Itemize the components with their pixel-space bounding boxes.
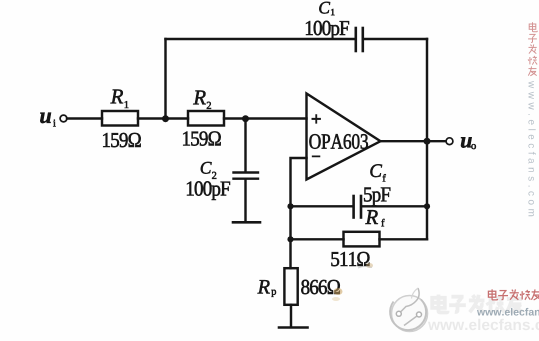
wire input to R1 <box>67 117 102 119</box>
wire Rp to ground <box>290 305 292 327</box>
value 511 ohm for Rf <box>331 252 369 266</box>
label u_o <box>461 137 472 147</box>
scan artifact yellow smudge near 866 ohm <box>334 288 343 295</box>
label Rp subscript <box>271 290 276 297</box>
value 866 ohm for Rp <box>301 280 340 294</box>
output terminal u_o <box>446 138 453 145</box>
wire Cf branch left <box>291 205 353 207</box>
watermark vertical strip right edge url <box>528 81 535 216</box>
label u_i subscript <box>53 120 56 127</box>
scan artifact smudge near 511 ohm <box>366 263 373 268</box>
wire R2 to op-amp + input through node B <box>224 117 307 119</box>
right side Cf junction dot <box>424 203 430 209</box>
watermark circle logo <box>390 288 427 332</box>
resistor R2 <box>188 111 224 126</box>
top wire right <box>364 38 427 40</box>
watermark text red hanzi bottom <box>488 289 539 300</box>
wire C2 to ground <box>244 180 246 222</box>
watermark vertical strip right edge hanzi <box>528 22 537 76</box>
feedback node Rf junction dot <box>287 236 293 242</box>
right vertical wire <box>426 39 428 239</box>
watermark url bottom <box>477 308 539 316</box>
wire node to output terminal <box>427 140 446 142</box>
label Cf subscript <box>383 174 386 181</box>
wire Cf branch right <box>362 205 427 207</box>
node A junction dot <box>162 115 169 122</box>
wire Rf branch right <box>380 238 428 240</box>
label C1 <box>319 2 330 14</box>
ground below C2 <box>233 221 260 224</box>
resistor R1 <box>102 111 138 126</box>
op-amp plus input sign <box>312 115 321 124</box>
label R2 <box>193 91 206 105</box>
label Rp <box>258 280 270 293</box>
value 159 ohm for R1 <box>103 133 141 147</box>
value 100pF for C2 <box>187 181 230 200</box>
capacitor C2 plates <box>234 171 259 173</box>
label Rf subscript <box>381 219 384 226</box>
resistor Rp <box>284 268 297 305</box>
wire op-amp output to node <box>381 140 428 142</box>
label Cf <box>370 164 382 177</box>
ground below Rp <box>279 326 308 329</box>
wire node B down to C2 <box>244 119 246 172</box>
op-amp part number OPA603 <box>309 134 368 149</box>
wire R1 to R2 through node A <box>138 117 188 119</box>
watermark embossed url shadow text <box>428 319 539 330</box>
op-amp U1 triangle <box>307 94 381 180</box>
capacitor C1 plates <box>354 28 357 51</box>
capacitor Cf plates <box>352 196 355 218</box>
label Rf <box>365 210 378 224</box>
watermark embossed hanzi shadow text <box>432 295 522 313</box>
label u_i <box>40 113 51 123</box>
label C1 subscript <box>331 9 334 15</box>
value 100pF for C1 <box>306 21 349 40</box>
label R2 subscript <box>207 102 211 109</box>
label u_o subscript <box>471 144 476 149</box>
feedback node Cf junction dot <box>287 203 293 209</box>
top wire left <box>166 38 355 40</box>
wire Rf branch left <box>291 238 344 240</box>
op-amp minus input sign <box>312 156 320 157</box>
output node junction dot <box>424 138 431 145</box>
label R1 subscript <box>125 101 129 108</box>
label C2 <box>201 162 212 174</box>
label R1 <box>111 90 124 104</box>
value 159 ohm for R2 <box>183 131 221 145</box>
wire node A up <box>164 39 166 119</box>
wire op-amp minus input <box>291 158 307 268</box>
value 5pF for Cf <box>364 188 390 206</box>
label C2 subscript <box>212 172 216 179</box>
resistor Rf <box>344 232 380 247</box>
node B junction dot <box>242 115 249 122</box>
input terminal u_i <box>60 115 67 122</box>
